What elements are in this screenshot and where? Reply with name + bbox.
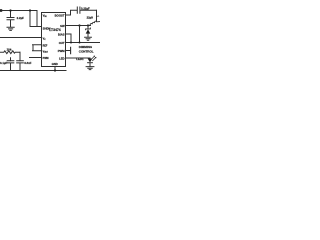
capacitor C1 2.2uF input [10,11,12,18]
node PWM waveform bar [70,47,72,53]
svg-text:BIAS: BIAS [58,32,65,36]
wire boost cap to SW node [96,10,98,21]
wire REF/VADJ tie [33,45,42,51]
junction dot at OUT [79,42,81,44]
LED LED1 [88,59,93,63]
svg-text:BOOST: BOOST [55,13,65,17]
svg-text:DIMMING: DIMMING [79,45,93,49]
svg-text:CONTROL: CONTROL [79,49,94,53]
wire BOOST loop [66,10,78,15]
wire BIAS to OUT [66,34,72,43]
svg-text:SW: SW [60,24,65,28]
ground (LED) [86,67,94,70]
junction dot BIAS/OUT [70,42,72,44]
diode D1 catch schottky [87,26,89,29]
capacitor C3 3.3nF [17,61,24,63]
wire LED pin [66,57,91,59]
capacitor C4 0.22uF boost [77,7,80,13]
wire PWM pin stub right [66,50,71,52]
svg-text:10k: 10k [7,47,12,51]
wire PWM pin stub left [30,57,42,59]
svg-text:VADJ: VADJ [43,50,48,53]
svg-text:0.1µF: 0.1µF [0,61,7,65]
resistor R1 10k [0,51,20,54]
LED arrows [91,56,96,61]
junction dot at SHDN branch [29,9,31,11]
svg-text:LED: LED [59,56,65,60]
wire VIN top rail [2,10,37,12]
ground (diode) [85,37,92,40]
svg-text:3.3nF: 3.3nF [24,61,32,65]
svg-text:GND: GND [52,62,58,66]
wire OUT line [66,42,101,44]
wire VC pin line to left edge [0,37,42,39]
wire SW [66,25,91,27]
wire VIN drop to pins [30,11,42,27]
svg-text:SHDN: SHDN [43,26,51,30]
svg-text:22µH: 22µH [87,16,94,20]
junction dot SW/diode [87,24,89,26]
inductor L1 [90,21,99,25]
svg-text:OUT: OUT [59,41,65,45]
wire GND pin stub [54,67,56,71]
svg-text:PWM: PWM [43,57,49,60]
svg-text:0.22µF: 0.22µF [81,7,90,11]
node VIN input terminal [0,9,2,12]
wire SW to OUT vertical [79,26,81,43]
svg-text:2.2µF: 2.2µF [17,16,25,20]
IC U1 LT3474 [42,13,66,67]
svg-text:LT3474: LT3474 [49,28,61,32]
junction dot at C1 [9,9,11,11]
capacitor C2 0.1uF [10,58,12,61]
junction dot SW/inductor [78,24,80,26]
ground (input cap) [7,27,14,30]
svg-text:PWM: PWM [58,49,66,53]
svg-text:LED1: LED1 [76,57,84,61]
junction dot GND rail [54,69,56,71]
svg-text:REF: REF [43,44,48,47]
wire ground rail [0,70,66,72]
wire R1 to C3 [19,52,21,61]
